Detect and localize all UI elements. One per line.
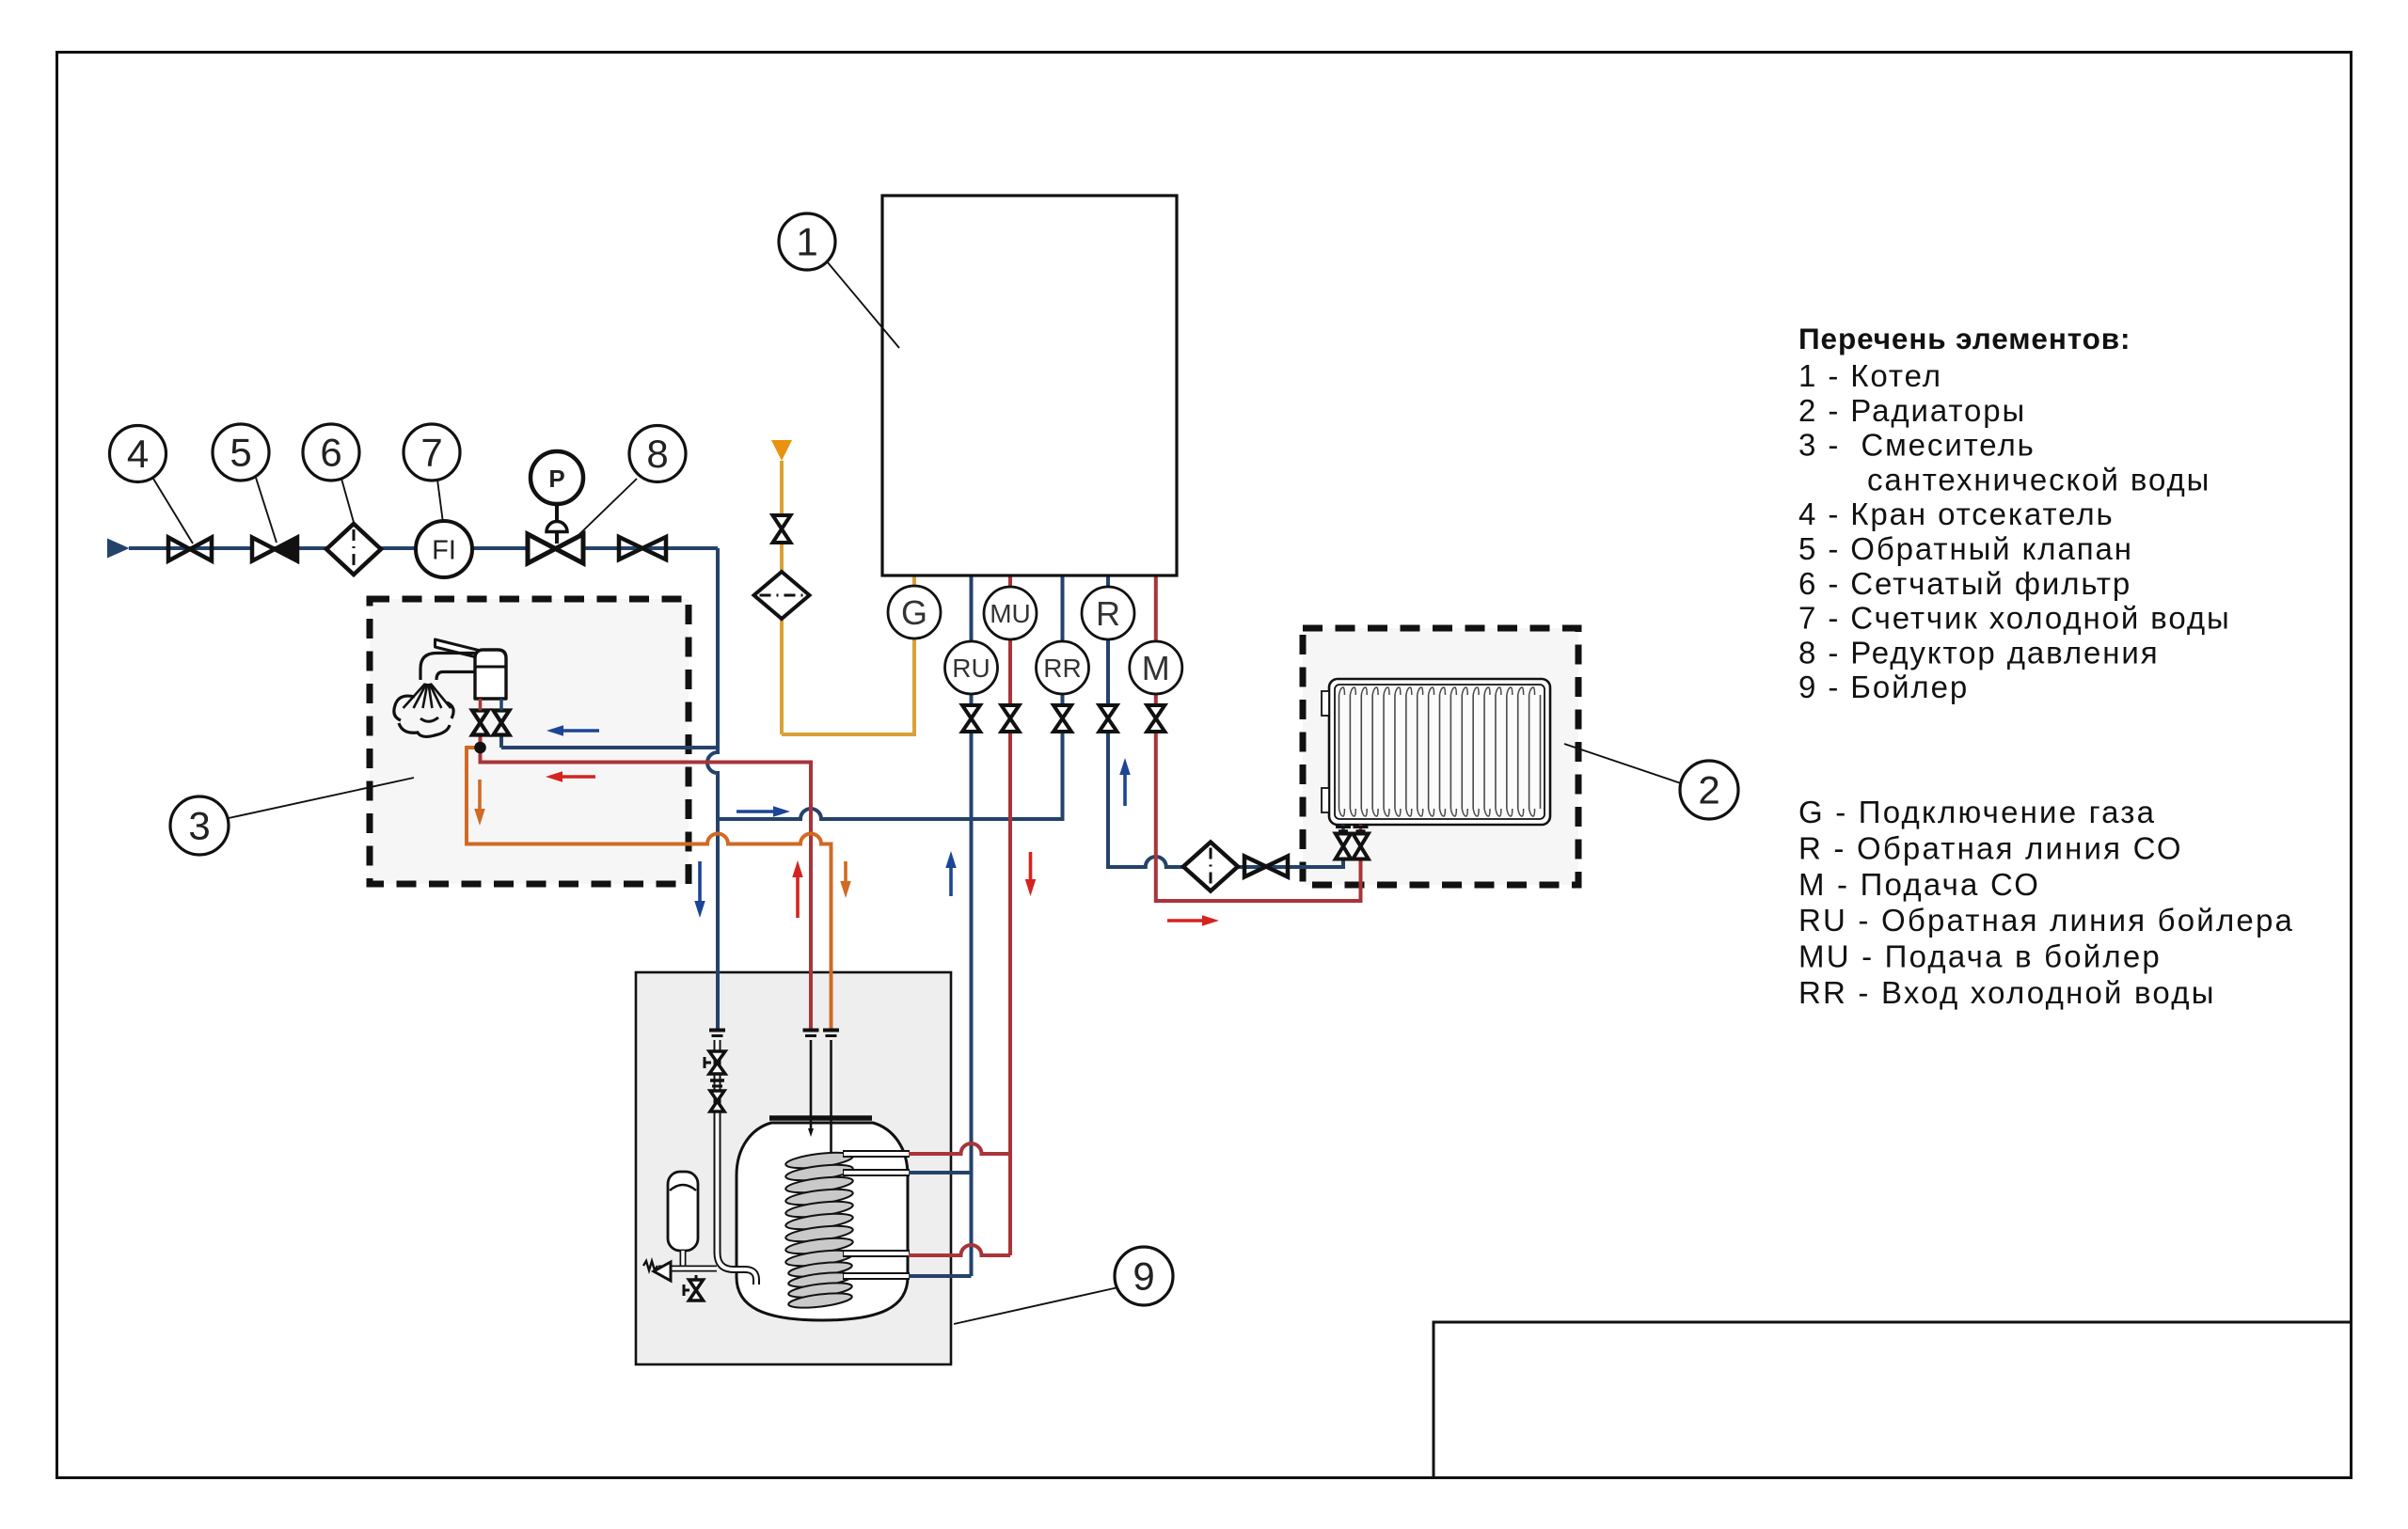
svg-text:M - Подача СО: M - Подача СО [1798, 867, 2040, 902]
svg-text:1: 1 [796, 220, 817, 264]
svg-text:4: 4 [127, 432, 149, 476]
svg-text:5 - Обратный клапан: 5 - Обратный клапан [1798, 531, 2133, 566]
svg-text:5: 5 [230, 431, 251, 475]
svg-text:MU: MU [990, 599, 1031, 628]
svg-text:8: 8 [646, 432, 668, 476]
svg-text:G: G [901, 593, 927, 632]
svg-text:RU: RU [952, 654, 990, 683]
svg-text:2: 2 [1698, 768, 1719, 812]
svg-text:6 - Сетчатый фильтр: 6 - Сетчатый фильтр [1798, 566, 2131, 601]
svg-text:RU - Обратная линия бойлера: RU - Обратная линия бойлера [1798, 903, 2294, 938]
svg-text:MU - Подача в бойлер: MU - Подача в бойлер [1798, 939, 2162, 974]
svg-text:7 - Счетчик холодной воды: 7 - Счетчик холодной воды [1798, 601, 2231, 636]
svg-text:сантехнической воды: сантехнической воды [1867, 462, 2210, 497]
svg-text:2 - Радиаторы: 2 - Радиаторы [1798, 393, 2026, 428]
svg-text:3 - Смеситель: 3 - Смеситель [1798, 428, 2036, 463]
svg-text:RR: RR [1043, 654, 1081, 683]
svg-text:1 - Котел: 1 - Котел [1798, 358, 1942, 393]
svg-text:8 - Редуктор давления: 8 - Редуктор давления [1798, 635, 2159, 670]
svg-text:4 - Кран отсекатель: 4 - Кран отсекатель [1798, 497, 2115, 531]
svg-text:Перечень элементов:: Перечень элементов: [1798, 322, 2131, 355]
svg-text:R: R [1096, 594, 1120, 633]
svg-text:7: 7 [420, 431, 442, 475]
svg-text:FI: FI [432, 536, 456, 566]
svg-text:3: 3 [188, 804, 210, 848]
svg-text:G - Подключение газа: G - Подключение газа [1798, 795, 2156, 829]
svg-text:RR - Вход холодной воды: RR - Вход холодной воды [1798, 975, 2216, 1010]
svg-text:R - Обратная линия СО: R - Обратная линия СО [1798, 830, 2183, 865]
svg-text:9: 9 [1133, 1254, 1154, 1299]
svg-text:M: M [1142, 649, 1170, 687]
svg-text:P: P [548, 465, 564, 493]
svg-text:6: 6 [320, 431, 341, 475]
svg-text:9 - Бойлер: 9 - Бойлер [1798, 670, 1969, 704]
